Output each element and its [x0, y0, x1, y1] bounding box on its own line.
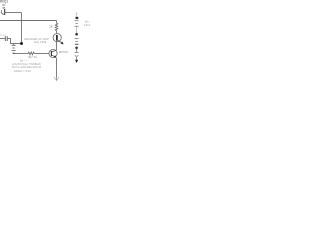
wire vertical x=21.5 down to junction [21, 13, 23, 44]
svg-text:1k: 1k [49, 24, 53, 28]
wire right branch upper [76, 27, 78, 34]
wire Q2 emitter down [56, 58, 58, 77]
resistor R2 [28, 52, 34, 55]
wire corner into R1 [56, 21, 58, 24]
capacitor C3 right branch [75, 39, 79, 42]
wire Q1 collector down to Q2 collector [56, 42, 58, 50]
supply terminal top right [76, 12, 79, 19]
svg-text:1411: 1411 [84, 23, 90, 27]
capacitor C2 lead left [0, 38, 5, 40]
resistor R1 [55, 23, 58, 33]
wire y=53 to R2 [16, 53, 29, 55]
battery BT1 [12, 44, 16, 54]
wire long horizontal y=20.5 [0, 20, 57, 22]
resistor R3 right branch battery-style bars [75, 21, 79, 27]
connector right branch lower [75, 49, 79, 56]
svg-text:av: av [2, 3, 6, 7]
svg-text:100uA = 0.9V: 100uA = 0.9V [14, 69, 31, 73]
junction dot right branch node C [75, 47, 78, 50]
junction dot node A [20, 42, 23, 45]
wire C2 to junction [8, 39, 22, 44]
junction dot right branch node B [75, 33, 78, 36]
svg-text:BC547: BC547 [59, 50, 69, 54]
wire R2 to Q2 base [34, 53, 49, 55]
svg-text:May 1998: May 1998 [34, 40, 47, 44]
transistor Q2 [49, 49, 57, 57]
transistor Q1 [53, 34, 63, 45]
arrow down right branch [75, 57, 78, 63]
ground arrow [54, 77, 59, 81]
svg-text:4k7 1k: 4k7 1k [28, 55, 37, 59]
capacitor C2 [5, 36, 7, 41]
wire mic to bend [5, 12, 22, 14]
label MIC1 text [0, 0, 8, 7]
microphone MIC1 [1, 7, 5, 15]
svg-text:b o t: b o t [1, 33, 6, 37]
